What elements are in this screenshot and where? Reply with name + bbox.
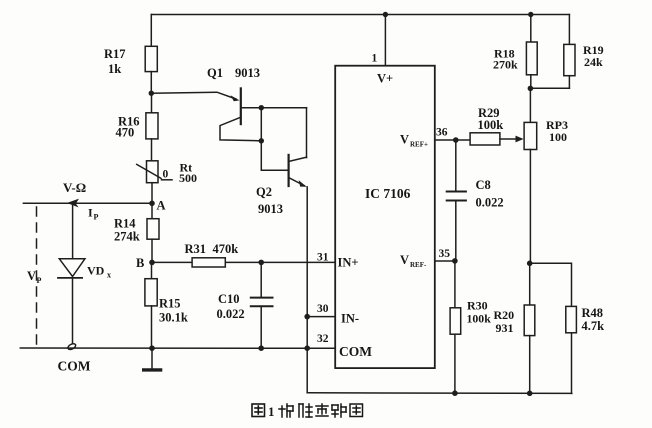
label R14 value: [114, 217, 140, 244]
svg-text:36: 36: [436, 127, 448, 139]
svg-text:1: 1: [268, 404, 275, 419]
transistor Q1 bar: [240, 88, 242, 124]
node: IN- junction: [304, 314, 310, 320]
label R29 value: [478, 106, 504, 132]
svg-text:I: I: [88, 206, 93, 220]
label R31 value: [185, 242, 239, 256]
label IN+: [338, 256, 359, 270]
svg-text:R30: R30: [467, 299, 488, 313]
svg-text:35: 35: [439, 248, 451, 260]
svg-text:30: 30: [317, 303, 329, 315]
label R18 value: [493, 47, 518, 72]
label pin 32: [317, 333, 329, 345]
node: C8 top junction: [453, 137, 459, 143]
resistor R48: [566, 306, 577, 393]
label V+: [377, 72, 393, 86]
svg-text:270k: 270k: [493, 58, 518, 72]
transistor Q2 bar: [288, 155, 290, 186]
diode VD: [58, 259, 85, 346]
wire: Q2 emitter drop to bottom rail: [306, 187, 308, 393]
svg-text:274k: 274k: [114, 230, 140, 244]
svg-text:R14: R14: [114, 217, 136, 231]
svg-text:100k: 100k: [467, 312, 492, 326]
Ip current arrowhead: [67, 199, 79, 208]
svg-text:0.022: 0.022: [476, 196, 504, 210]
svg-text:C10: C10: [218, 292, 240, 306]
node: R30 bottom on rail: [452, 390, 458, 396]
wire: V-ohm probe line: [23, 202, 152, 204]
label node B: [136, 256, 144, 270]
resistor R14: [147, 203, 159, 262]
svg-text:100k: 100k: [478, 118, 504, 132]
svg-text:P: P: [37, 276, 42, 285]
wire: COM rail: [20, 347, 335, 349]
caption: figure 1 gear circuit diagram (hand-drawn CJK): [252, 404, 265, 417]
RP3 wiper arrowhead: [516, 136, 524, 143]
svg-text:32: 32: [317, 333, 329, 345]
label R48 value: [582, 306, 605, 333]
transistor Q2 collector wire: [289, 157, 307, 161]
Q1 arrowhead: [231, 95, 240, 101]
node: C10 bottom on COM rail: [258, 345, 264, 351]
label pin 31: [317, 252, 329, 264]
svg-text:1: 1: [372, 53, 378, 65]
svg-text:30.1k: 30.1k: [159, 311, 188, 325]
svg-text:24k: 24k: [584, 55, 603, 69]
label Vref-: [400, 253, 427, 269]
Q2 emitter arrowhead: [299, 180, 307, 187]
resistor R15: [145, 262, 157, 348]
connector circle on COM: [67, 343, 77, 351]
resistor R17: [145, 15, 157, 94]
svg-text:31: 31: [317, 252, 329, 264]
label pin 1: [372, 53, 378, 65]
label COM: [58, 359, 91, 374]
node: Q1 emitter / Q2 base junction: [259, 138, 264, 143]
node: COM junction at pin 32: [304, 345, 310, 351]
resistor R19: [530, 15, 575, 89]
wire: junction to R48 branch: [530, 263, 572, 306]
label pin 30: [317, 303, 329, 315]
svg-text:VD: VD: [87, 264, 105, 278]
transistor Q1 emitter wire: [220, 117, 261, 141]
svg-text:931: 931: [496, 321, 514, 335]
label C10 value: [217, 292, 245, 321]
char tu (figure): [252, 404, 265, 417]
label pin 35: [439, 248, 451, 260]
svg-text:COM: COM: [58, 359, 91, 374]
label R30 value: [467, 299, 492, 326]
svg-text:500: 500: [179, 171, 197, 185]
label Q1: [207, 66, 260, 80]
wire: junction down to Q2 base: [261, 141, 288, 171]
svg-text:V: V: [400, 133, 409, 147]
svg-text:REF+: REF+: [410, 141, 428, 149]
svg-text:IC 7106: IC 7106: [365, 186, 411, 201]
resistor R30: [450, 261, 461, 393]
label R16 value: [116, 115, 140, 140]
label node A: [157, 199, 166, 213]
potentiometer RP3: [524, 88, 537, 263]
label Vp: [27, 269, 42, 285]
wire: top V+ rail: [151, 14, 569, 16]
svg-text:470: 470: [116, 126, 135, 140]
svg-text:P: P: [94, 213, 99, 222]
node: R18 top on rail: [528, 12, 533, 17]
label 0 underline: [162, 179, 173, 181]
caption numeral 1: [268, 404, 275, 419]
node: R18/R19 junction: [528, 86, 534, 92]
svg-text:R48: R48: [582, 306, 604, 320]
node: pin1 on top rail: [383, 12, 388, 17]
label Rt value: [163, 161, 198, 186]
svg-text:R15: R15: [159, 297, 181, 311]
svg-text:V-Ω: V-Ω: [63, 180, 86, 195]
node A: [149, 201, 155, 207]
wire: node B to IN+ pin 31: [152, 261, 335, 263]
capacitor C8: [447, 140, 466, 261]
label Ip: [88, 206, 99, 222]
node: junction R17/R16/Q1 base: [149, 91, 154, 96]
label COM pin: [339, 344, 372, 359]
label Vref+: [400, 133, 428, 149]
svg-text:4.7k: 4.7k: [582, 319, 605, 333]
svg-text:V+: V+: [377, 72, 393, 86]
svg-text:R20: R20: [494, 308, 515, 322]
label C8 value: [476, 178, 504, 210]
resistor R29: [470, 133, 518, 145]
resistor R20: [524, 263, 535, 393]
node: R15/ground junction on COM rail: [149, 345, 155, 351]
svg-text:Q1: Q1: [207, 66, 223, 80]
label pin 36: [436, 127, 448, 139]
caption chars remainder: [279, 404, 363, 417]
label R19 value: [583, 43, 604, 69]
svg-text:B: B: [136, 256, 144, 270]
svg-text:0: 0: [163, 169, 169, 181]
label R15 value: [159, 297, 188, 325]
label R20 value: [494, 308, 515, 335]
wire: bottom rail: [307, 392, 572, 395]
transistor Q1 collector wire: [241, 107, 307, 109]
capacitor C10: [251, 262, 273, 348]
resistor R31: [192, 258, 225, 267]
resistor R16: [146, 93, 158, 161]
label RP3 value: [546, 118, 568, 144]
resistor R18: [526, 15, 537, 89]
node B: [149, 260, 155, 266]
wire: probe down to diode: [72, 203, 74, 258]
svg-text:REF-: REF-: [410, 261, 427, 269]
op-amp U1: IC 7106 box: [335, 66, 435, 368]
svg-text:Q2: Q2: [256, 185, 272, 199]
transistor Q2 emitter wire: [289, 178, 305, 186]
wire: junction to Q1: [151, 92, 236, 99]
node: C10 top junction: [258, 260, 264, 266]
ground: [144, 348, 161, 370]
wire: Q1 collector down to Q2 collector: [306, 108, 308, 158]
svg-text:V: V: [400, 253, 409, 267]
label R17 value: [104, 47, 126, 76]
svg-text:V: V: [27, 269, 36, 283]
svg-text:100: 100: [549, 130, 567, 144]
svg-text:0.022: 0.022: [217, 307, 245, 321]
svg-text:COM: COM: [339, 344, 372, 359]
svg-text:9013: 9013: [258, 202, 283, 216]
node: Q1 collector junction: [259, 105, 264, 110]
label V-ohm: [63, 180, 86, 195]
thermistor Rt: [137, 161, 161, 204]
label Q2: [256, 185, 283, 216]
svg-text:C8: C8: [476, 178, 491, 192]
wire: pin 36 to R29: [435, 139, 470, 141]
label IN-: [341, 312, 359, 326]
svg-text:R17: R17: [104, 47, 126, 61]
svg-text:470k: 470k: [213, 242, 239, 256]
svg-text:IN+: IN+: [338, 256, 359, 270]
svg-text:IN-: IN-: [341, 312, 359, 326]
svg-text:1k: 1k: [108, 62, 121, 76]
wire: collector-emitter vertical link: [260, 108, 262, 141]
svg-text:A: A: [157, 199, 166, 213]
wire: pin 35: [435, 260, 455, 262]
node: R20 bottom on rail: [527, 391, 533, 397]
pin 1 wire: [384, 15, 386, 66]
node: pin 35 junction: [452, 258, 458, 264]
label VD: [87, 264, 111, 280]
svg-text:9013: 9013: [235, 66, 260, 80]
svg-text:x: x: [107, 271, 111, 280]
Vp dashed measurement line: [36, 207, 38, 345]
label IC 7106: [365, 186, 411, 201]
svg-text:R31: R31: [185, 242, 207, 256]
wire: pin 30 IN-: [307, 316, 335, 318]
node: RP3 bottom junction: [527, 261, 533, 267]
